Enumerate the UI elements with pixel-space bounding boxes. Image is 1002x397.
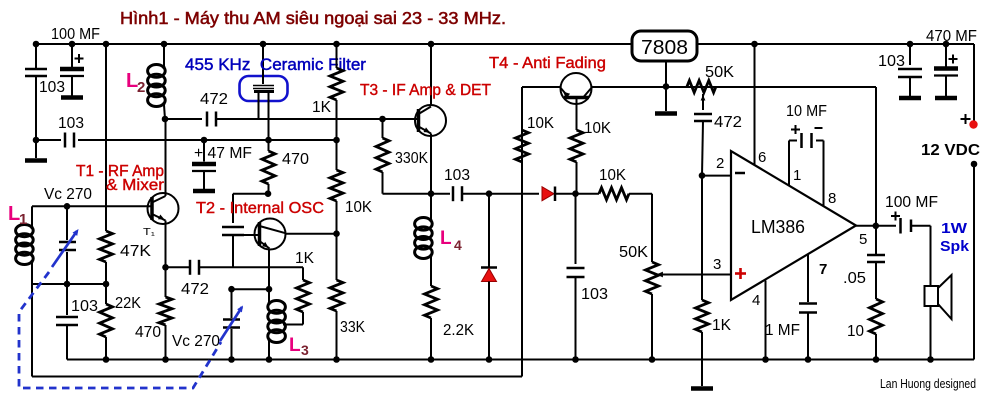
- wire to 33K: [336, 234, 338, 280]
- capacitor 472: [694, 113, 712, 116]
- wire T1 base line: [32, 205, 152, 207]
- node: [649, 356, 656, 363]
- wire vertical T4-left / return: [521, 87, 523, 377]
- svg-text:50K: 50K: [619, 244, 648, 261]
- node: [805, 356, 812, 363]
- node: [162, 356, 169, 363]
- plus sign pin3: [735, 272, 746, 275]
- wire to ground: [35, 140, 37, 158]
- node: [64, 203, 71, 210]
- plus sign 100MF: [891, 215, 900, 217]
- wire det line: [462, 193, 539, 195]
- wire T3 emitter down: [430, 134, 432, 194]
- node: [69, 41, 76, 48]
- wire osc tank: [232, 288, 270, 290]
- wire T4 base down: [576, 98, 578, 131]
- wire 103 top: [66, 284, 68, 315]
- wire filter leg right: [268, 93, 270, 140]
- wire down to output node: [875, 87, 877, 226]
- svg-text:1: 1: [793, 167, 801, 184]
- wire 100MF top lead: [71, 44, 73, 67]
- node: [873, 356, 880, 363]
- svg-text:.05: .05: [843, 270, 866, 287]
- ground: [935, 96, 957, 101]
- svg-text:103: 103: [581, 286, 608, 303]
- wire y284: [32, 283, 106, 285]
- capacitor 1 MF: [799, 302, 817, 305]
- wire L1 bottom to return: [31, 263, 33, 377]
- plus sign 470MF: [949, 58, 958, 60]
- resistor 10K: [570, 130, 583, 162]
- resistor 470: [262, 151, 275, 184]
- wire L3 tap: [283, 324, 303, 326]
- wire 1K top: [336, 44, 338, 68]
- node: [762, 356, 769, 363]
- inductor L3: [268, 301, 286, 314]
- wire emitter coupling: [166, 266, 191, 268]
- svg-text:L: L: [440, 228, 452, 249]
- wire 7808 ground lead: [665, 61, 667, 111]
- svg-text:103: 103: [878, 53, 905, 70]
- node: [907, 41, 914, 48]
- wire T1 emitter down: [165, 221, 167, 268]
- wire right edge 12V down to bottom rail: [973, 164, 975, 360]
- wire det line: [554, 193, 599, 195]
- wire T3 base: [383, 118, 419, 120]
- svg-text:330K: 330K: [395, 150, 428, 167]
- svg-text:10K: 10K: [599, 167, 626, 184]
- transistor T1: [148, 193, 179, 224]
- capacitor 10 MF: [789, 140, 797, 142]
- node: [161, 41, 168, 48]
- capacitor 103 series: [452, 186, 455, 201]
- inductor L1: [16, 225, 34, 237]
- wire right edge down to 12V input: [973, 44, 975, 124]
- svg-text:33K: 33K: [340, 319, 365, 336]
- node: [228, 356, 235, 363]
- resistor 10: [870, 299, 883, 334]
- wire T2 base: [244, 234, 260, 236]
- node: [572, 356, 579, 363]
- resistor 22K: [100, 304, 113, 337]
- svg-text:3: 3: [713, 256, 721, 273]
- svg-text:1K: 1K: [295, 250, 314, 267]
- wire 1K top: [302, 267, 304, 280]
- node: [33, 137, 40, 144]
- wire to 1K/10K junction: [78, 139, 337, 141]
- svg-text:22K: 22K: [115, 295, 141, 312]
- svg-text:470 MF: 470 MF: [926, 28, 977, 45]
- capacitor 47 MF electrolytic: [192, 162, 216, 167]
- resistor 470: [159, 297, 172, 325]
- capacitor 100 MF: [899, 218, 902, 234]
- plus sign 100MF: [75, 58, 84, 60]
- node: [572, 190, 579, 197]
- svg-text:Vc 270: Vc 270: [44, 186, 92, 203]
- transistor T3: [415, 105, 446, 136]
- svg-text:3: 3: [301, 342, 309, 358]
- capacitor Vc270 variable: [59, 241, 76, 244]
- wire pin 5 output: [856, 225, 876, 227]
- svg-text:103: 103: [39, 79, 65, 96]
- svg-text:Spk: Spk: [940, 238, 970, 255]
- svg-text:472: 472: [714, 114, 742, 131]
- svg-text:472: 472: [181, 281, 209, 298]
- node: [103, 41, 110, 48]
- svg-text:10 MF: 10 MF: [786, 103, 827, 120]
- wire pin 1: [788, 141, 790, 186]
- svg-text:100 MF: 100 MF: [885, 194, 938, 211]
- node: [162, 116, 169, 123]
- node: [265, 137, 272, 144]
- svg-text:T4 - Anti Fading: T4 - Anti Fading: [489, 55, 606, 72]
- svg-text:103: 103: [58, 115, 84, 132]
- dashed tuning gang link: [19, 272, 221, 388]
- resistor 1K: [297, 280, 310, 312]
- inductor L4: [415, 218, 433, 231]
- wire T1 collector up to IF line: [165, 119, 167, 196]
- svg-text:2: 2: [716, 155, 724, 172]
- capacitor 103: [56, 316, 78, 319]
- svg-text:472: 472: [200, 91, 228, 108]
- node: [486, 356, 493, 363]
- svg-text:10: 10: [847, 323, 864, 340]
- svg-text:Hình1 - Máy thu AM siêu ngoại: Hình1 - Máy thu AM siêu ngoại sai 23 - 3…: [120, 8, 506, 28]
- plus sign 10MF: [791, 129, 800, 131]
- wire top +V rail: [36, 43, 974, 45]
- Vc270b tuning arrow: [220, 307, 242, 341]
- node: [64, 281, 71, 288]
- capacitor 103: [898, 68, 922, 71]
- wire antenna cap top lead: [35, 44, 37, 69]
- wire filter leg left: [258, 93, 260, 119]
- wire pin 6: [754, 44, 756, 165]
- node: [103, 356, 110, 363]
- wire to base cap: [232, 194, 234, 223]
- node: [699, 172, 706, 179]
- svg-text:T₁: T₁: [143, 227, 156, 238]
- wire L2 top lead: [163, 44, 165, 66]
- node: [162, 264, 169, 271]
- svg-text:T2 - Internal OSC: T2 - Internal OSC: [196, 200, 324, 217]
- ground: [193, 189, 215, 194]
- node: [663, 83, 670, 90]
- node: [265, 190, 272, 197]
- node 12V: [971, 161, 978, 168]
- wire speaker: [930, 226, 932, 360]
- Vc270 tuning arrow: [52, 231, 77, 267]
- svg-text:T3 - IF Amp & DET: T3 - IF Amp & DET: [360, 82, 491, 99]
- speaker 1W: [925, 286, 939, 306]
- wire Vc270b top: [231, 289, 233, 318]
- wire T2 collector: [286, 233, 337, 235]
- resistor 330K: [376, 138, 389, 172]
- svg-text:100 MF: 100 MF: [51, 26, 100, 43]
- svg-text:Vc 270: Vc 270: [172, 333, 220, 350]
- wire L1 top: [31, 206, 33, 226]
- resistor 47K: [100, 231, 113, 262]
- node: [428, 41, 435, 48]
- node: [486, 190, 493, 197]
- svg-text:1W: 1W: [941, 220, 968, 237]
- diode zener: [482, 269, 497, 282]
- wire det line: [383, 193, 451, 195]
- svg-text:L: L: [289, 335, 301, 356]
- minus sign pin2: [735, 172, 745, 175]
- wire zener top: [488, 194, 490, 267]
- capacitor 472 series: [206, 112, 209, 127]
- wire 470 top: [268, 140, 270, 151]
- wire T3 collector: [430, 44, 432, 106]
- svg-text:+ 47 MF: + 47 MF: [194, 145, 252, 162]
- 12V input terminal: [969, 120, 977, 128]
- potentiometer 50K: [687, 81, 716, 93]
- wire antenna node: [35, 76, 37, 140]
- wire pin 7: [807, 254, 809, 302]
- wire T2 bias: [233, 193, 268, 195]
- transistor T2: [255, 219, 286, 250]
- wire T4 emitter left: [522, 86, 561, 88]
- capacitor 103 (antenna): [25, 68, 47, 71]
- node: [201, 137, 208, 144]
- plus sign 12V: [961, 118, 971, 120]
- svg-text:12 VDC: 12 VDC: [921, 142, 980, 159]
- node: [751, 41, 758, 48]
- inductor L2: [148, 65, 166, 78]
- transistor T4: [561, 73, 592, 104]
- op-amp U1 LM386: [731, 151, 856, 300]
- node: [428, 356, 435, 363]
- resistor 10K left: [516, 130, 529, 162]
- svg-text:47K: 47K: [120, 243, 151, 260]
- resistor 2.2K: [425, 286, 438, 318]
- resistor 1K: [330, 68, 343, 100]
- svg-text:1 MF: 1 MF: [765, 322, 800, 339]
- diode detector: [542, 187, 554, 201]
- wire 103 top: [909, 44, 911, 65]
- capacitor 100 MF electrolytic: [60, 67, 84, 72]
- ground: [899, 96, 921, 101]
- svg-text:4: 4: [454, 237, 462, 253]
- svg-text:7: 7: [819, 261, 827, 278]
- wire bottom return: [32, 376, 522, 378]
- svg-text:103: 103: [71, 298, 98, 315]
- node: [333, 230, 340, 237]
- svg-text:50K: 50K: [705, 64, 734, 81]
- node: [333, 41, 340, 48]
- svg-text:7808: 7808: [641, 37, 688, 59]
- svg-text:1K: 1K: [712, 317, 731, 334]
- node: [33, 41, 40, 48]
- wire to 10K: [336, 140, 338, 170]
- wire to 100MF: [876, 225, 896, 227]
- ground: [691, 386, 713, 391]
- wire pin 2: [702, 175, 731, 177]
- ground: [655, 111, 677, 116]
- node: [428, 190, 435, 197]
- wire bottom ground rail: [67, 359, 974, 361]
- capacitor Vc270 variable 2: [223, 318, 240, 321]
- node: [260, 41, 267, 48]
- wire IF line: [165, 118, 202, 120]
- resistor 10K: [330, 170, 343, 201]
- capacitor .05: [867, 254, 885, 257]
- wire to volume pot: [629, 193, 652, 195]
- wire filter input from rail: [262, 44, 264, 84]
- resistor 1K: [696, 300, 709, 332]
- svg-text:Lan Huong designed: Lan Huong designed: [880, 377, 976, 391]
- capacitor T2 base: [222, 226, 244, 229]
- ceramic filter box: [240, 76, 288, 101]
- node: [333, 356, 340, 363]
- svg-text:4: 4: [752, 292, 760, 309]
- capacitor 472 series: [189, 260, 192, 275]
- wire pot wiper to pin 3: [657, 274, 732, 276]
- capacitor 103: [567, 267, 585, 270]
- svg-text:& Mixer: & Mixer: [106, 177, 165, 194]
- filter plates: [253, 85, 274, 87]
- svg-text:1K: 1K: [312, 99, 331, 116]
- resistor 33K: [330, 280, 343, 311]
- svg-text:470: 470: [135, 324, 161, 341]
- ground: [61, 95, 83, 100]
- resistor 10K series: [599, 188, 629, 200]
- wire 47K to 22K: [105, 262, 107, 304]
- svg-text:1: 1: [19, 211, 27, 228]
- node: [927, 356, 934, 363]
- wire 47MF top: [203, 140, 205, 162]
- wire rail down to 47K: [105, 44, 107, 231]
- node: [333, 137, 340, 144]
- capacitor 470 MF electrolytic: [934, 66, 958, 71]
- node: [379, 116, 386, 123]
- capacitor 103 series: [64, 133, 67, 148]
- wire Vc270 top: [66, 206, 68, 240]
- wire 470MF top: [945, 44, 947, 67]
- node: [873, 223, 880, 230]
- wire pin 8: [823, 141, 825, 207]
- node: [266, 286, 273, 293]
- wire pot wiper: [702, 94, 704, 110]
- svg-text:2: 2: [137, 79, 145, 96]
- wire 103 top: [575, 194, 577, 264]
- svg-text:5: 5: [859, 231, 867, 248]
- ground: [25, 158, 47, 163]
- svg-text:470: 470: [282, 151, 309, 168]
- svg-text:2.2K: 2.2K: [443, 322, 474, 339]
- node: [103, 281, 110, 288]
- diode zener bar: [481, 266, 497, 269]
- svg-text:10K: 10K: [584, 120, 611, 137]
- regulator 7808: [632, 31, 697, 61]
- svg-text:10K: 10K: [345, 199, 372, 216]
- node: [266, 356, 273, 363]
- svg-text:10K: 10K: [527, 115, 554, 132]
- wire pin2 to 1K: [701, 176, 703, 300]
- minus sign 10MF: [815, 127, 823, 129]
- svg-text:6: 6: [758, 149, 766, 166]
- node: [228, 286, 235, 293]
- wire 8V secondary rail: [592, 86, 877, 88]
- wire 330K top: [382, 119, 384, 138]
- node: [943, 41, 950, 48]
- svg-text:8: 8: [828, 190, 836, 207]
- wire antenna coupling: [36, 139, 61, 141]
- wire L4 top: [430, 194, 432, 219]
- wire T2 emitter down: [268, 249, 270, 290]
- svg-text:103: 103: [444, 167, 470, 184]
- potentiometer 50K: [646, 262, 659, 294]
- svg-text:LM386: LM386: [751, 217, 805, 237]
- wire pin 4: [765, 281, 767, 360]
